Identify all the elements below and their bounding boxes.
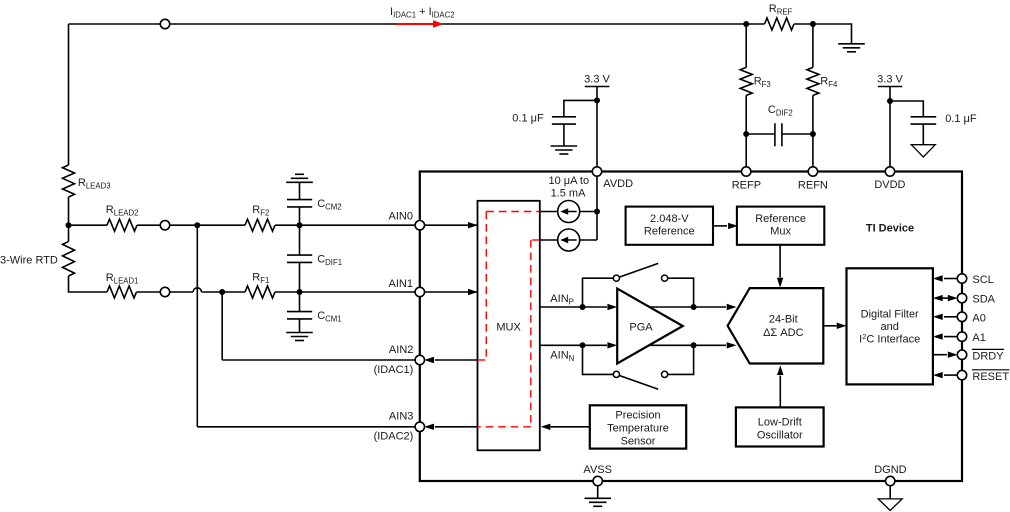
svg-text:REFP: REFP (732, 180, 761, 192)
svg-text:24-Bit: 24-Bit (769, 314, 798, 326)
svg-text:Oscillator: Oscillator (757, 430, 803, 442)
svg-text:MUX: MUX (496, 322, 521, 334)
svg-text:Digital Filter: Digital Filter (861, 309, 919, 321)
svg-text:(IDAC2): (IDAC2) (374, 430, 414, 442)
svg-text:AIN1: AIN1 (389, 278, 413, 290)
svg-text:I2C Interface: I2C Interface (859, 332, 920, 346)
svg-text:ΔΣ ADC: ΔΣ ADC (763, 327, 803, 339)
svg-text:A0: A0 (972, 312, 985, 324)
svg-text:SCL: SCL (972, 274, 993, 286)
svg-text:2.048-V: 2.048-V (650, 213, 689, 225)
svg-text:Precision: Precision (615, 410, 660, 422)
svg-text:0.1 μF: 0.1 μF (512, 112, 544, 124)
svg-text:DGND: DGND (874, 464, 906, 476)
svg-text:A1: A1 (972, 332, 985, 344)
svg-text:1.5 mA: 1.5 mA (551, 187, 587, 199)
svg-text:Temperature: Temperature (607, 423, 669, 435)
svg-text:Sensor: Sensor (621, 435, 656, 447)
svg-text:TI Device: TI Device (866, 223, 914, 235)
svg-text:(IDAC1): (IDAC1) (374, 364, 414, 376)
svg-text:SDA: SDA (972, 294, 995, 306)
svg-text:DVDD: DVDD (874, 179, 905, 191)
svg-text:AIN2: AIN2 (389, 344, 413, 356)
svg-text:10 μA to: 10 μA to (549, 175, 590, 187)
svg-text:AVSS: AVSS (583, 464, 612, 476)
svg-text:AIN0: AIN0 (389, 210, 413, 222)
svg-text:3.3 V: 3.3 V (877, 74, 903, 86)
svg-text:DRDY: DRDY (972, 350, 1004, 362)
svg-text:RESET: RESET (972, 371, 1009, 383)
svg-text:Mux: Mux (770, 226, 791, 238)
svg-text:Reference: Reference (644, 226, 695, 238)
svg-text:AIN3: AIN3 (389, 411, 413, 423)
svg-text:AVDD: AVDD (603, 178, 633, 190)
svg-text:0.1 μF: 0.1 μF (945, 113, 977, 125)
svg-text:Reference: Reference (755, 213, 806, 225)
svg-text:3.3 V: 3.3 V (584, 74, 610, 86)
svg-text:PGA: PGA (629, 322, 653, 334)
svg-text:Low-Drift: Low-Drift (758, 417, 802, 429)
svg-text:REFN: REFN (798, 180, 828, 192)
svg-text:and: and (881, 321, 899, 333)
svg-text:3-Wire RTD: 3-Wire RTD (0, 255, 58, 267)
